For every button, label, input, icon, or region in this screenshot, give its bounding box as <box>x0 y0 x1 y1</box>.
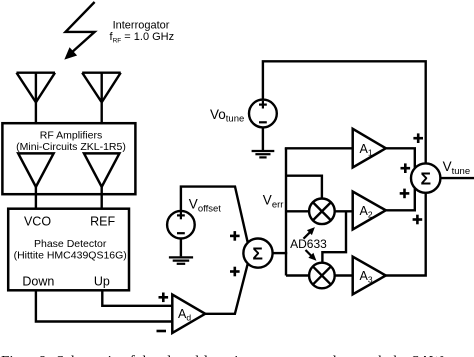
svg-text:Fig.6Schematic of the closed-l: Fig.6Schematic of the closed-loop interr… <box>1 354 474 357</box>
minus sign in Voffset <box>177 232 185 234</box>
antenna ANT2 <box>82 73 121 125</box>
multiplier X1 (AD633) <box>309 199 335 225</box>
wire bus to A1 input <box>285 147 353 149</box>
svg-text:(Mini-Circuits ZKL-1R5): (Mini-Circuits ZKL-1R5) <box>16 141 126 153</box>
amplifier A3 <box>353 257 386 295</box>
arrow AD633 to X2 <box>306 250 317 261</box>
wire Votune top to S2 top <box>263 61 426 163</box>
node Verr bus vertical <box>285 148 287 275</box>
wire bus to multiplier X2 left input <box>286 274 309 276</box>
ground under Votune <box>252 151 275 157</box>
wire A3 output to S2 <box>386 193 426 276</box>
summing node S2 <box>411 163 440 192</box>
minus sign in Votune <box>259 121 267 123</box>
ground under Voffset <box>169 257 193 263</box>
svg-text:VCO: VCO <box>24 214 51 228</box>
svg-text:Phase Detector: Phase Detector <box>34 238 107 250</box>
svg-text:A3: A3 <box>360 269 373 285</box>
amplifier A2 <box>353 192 386 230</box>
plus sign S2 top input <box>413 133 423 143</box>
svg-text:(Hittite HMC439QS16G): (Hittite HMC439QS16G) <box>14 249 127 261</box>
svg-text:RF Amplifiers: RF Amplifiers <box>40 130 102 142</box>
svg-text:Down: Down <box>22 275 54 289</box>
amplifier A1 <box>353 129 386 168</box>
svg-text:Up: Up <box>94 275 110 289</box>
wire X1 output to A2 input <box>335 210 353 212</box>
svg-text:fRF = 1.0 GHz: fRF = 1.0 GHz <box>110 31 175 44</box>
RF amplifiers box U1 <box>2 123 135 194</box>
wire A2 output to S2 <box>386 188 415 210</box>
svg-text:A1: A1 <box>360 142 373 158</box>
plus sign in Votune <box>259 101 267 109</box>
svg-text:Ad: Ad <box>178 307 191 323</box>
plus sign in Voffset <box>177 212 185 220</box>
plus sign S2 A2 input <box>400 189 410 199</box>
svg-text:Σ: Σ <box>421 169 432 189</box>
wire VCO (U1 to phase detector) <box>35 187 37 209</box>
source Votune <box>249 100 277 128</box>
svg-text:Verr: Verr <box>263 193 284 211</box>
wire Voffset top to summing node S1 <box>181 187 248 243</box>
plus sign S2 A1 input <box>401 163 411 173</box>
arrow AD633 to X1 <box>304 227 315 239</box>
wire X2 output to A3 input <box>335 274 353 276</box>
wire Down to Ad minus input <box>36 290 172 321</box>
svg-text:Votune: Votune <box>210 107 244 125</box>
svg-text:Interrogator: Interrogator <box>113 19 170 31</box>
wire REF (U1 to phase detector) <box>100 187 102 209</box>
plus sign S1 lower input <box>230 267 240 277</box>
wire Voffset to ground <box>180 239 182 257</box>
plus sign Ad input <box>159 293 169 303</box>
amplifier right (in U1) <box>84 153 119 186</box>
plus sign S1 upper input <box>230 231 240 241</box>
wire bus to multiplier X1 top input <box>286 176 322 199</box>
svg-text:Vtune: Vtune <box>443 159 471 177</box>
wire Verr to multiplier X1 left input <box>286 210 309 212</box>
wire Ad output to summing node S1 <box>205 263 248 313</box>
minus sign Ad input <box>157 330 167 333</box>
wire Up to Ad plus input <box>102 290 172 306</box>
antenna ANT1 <box>17 73 56 125</box>
interrogator lightning arrow <box>65 2 94 59</box>
summing node S1 <box>243 239 272 268</box>
wire A1 output to S2 <box>386 148 415 168</box>
svg-text:Σ: Σ <box>252 244 263 264</box>
svg-text:A2: A2 <box>360 204 373 220</box>
wire S2 output Vtune <box>440 177 474 179</box>
svg-text:Voffset: Voffset <box>189 197 221 215</box>
svg-text:AD633: AD633 <box>290 237 327 251</box>
multiplier X2 (AD633) <box>309 263 335 289</box>
op-amp Ad <box>172 295 205 333</box>
wire S1 output to Verr bus <box>273 252 288 254</box>
plus sign S2 A3 input <box>413 215 423 225</box>
wire X1 output to X2 second input <box>322 211 346 262</box>
amplifier left (in U1) <box>18 153 53 186</box>
svg-text:REF: REF <box>90 214 115 228</box>
phase detector box U2 <box>8 209 129 291</box>
source Voffset <box>167 211 195 239</box>
wire Votune to ground <box>262 127 264 150</box>
